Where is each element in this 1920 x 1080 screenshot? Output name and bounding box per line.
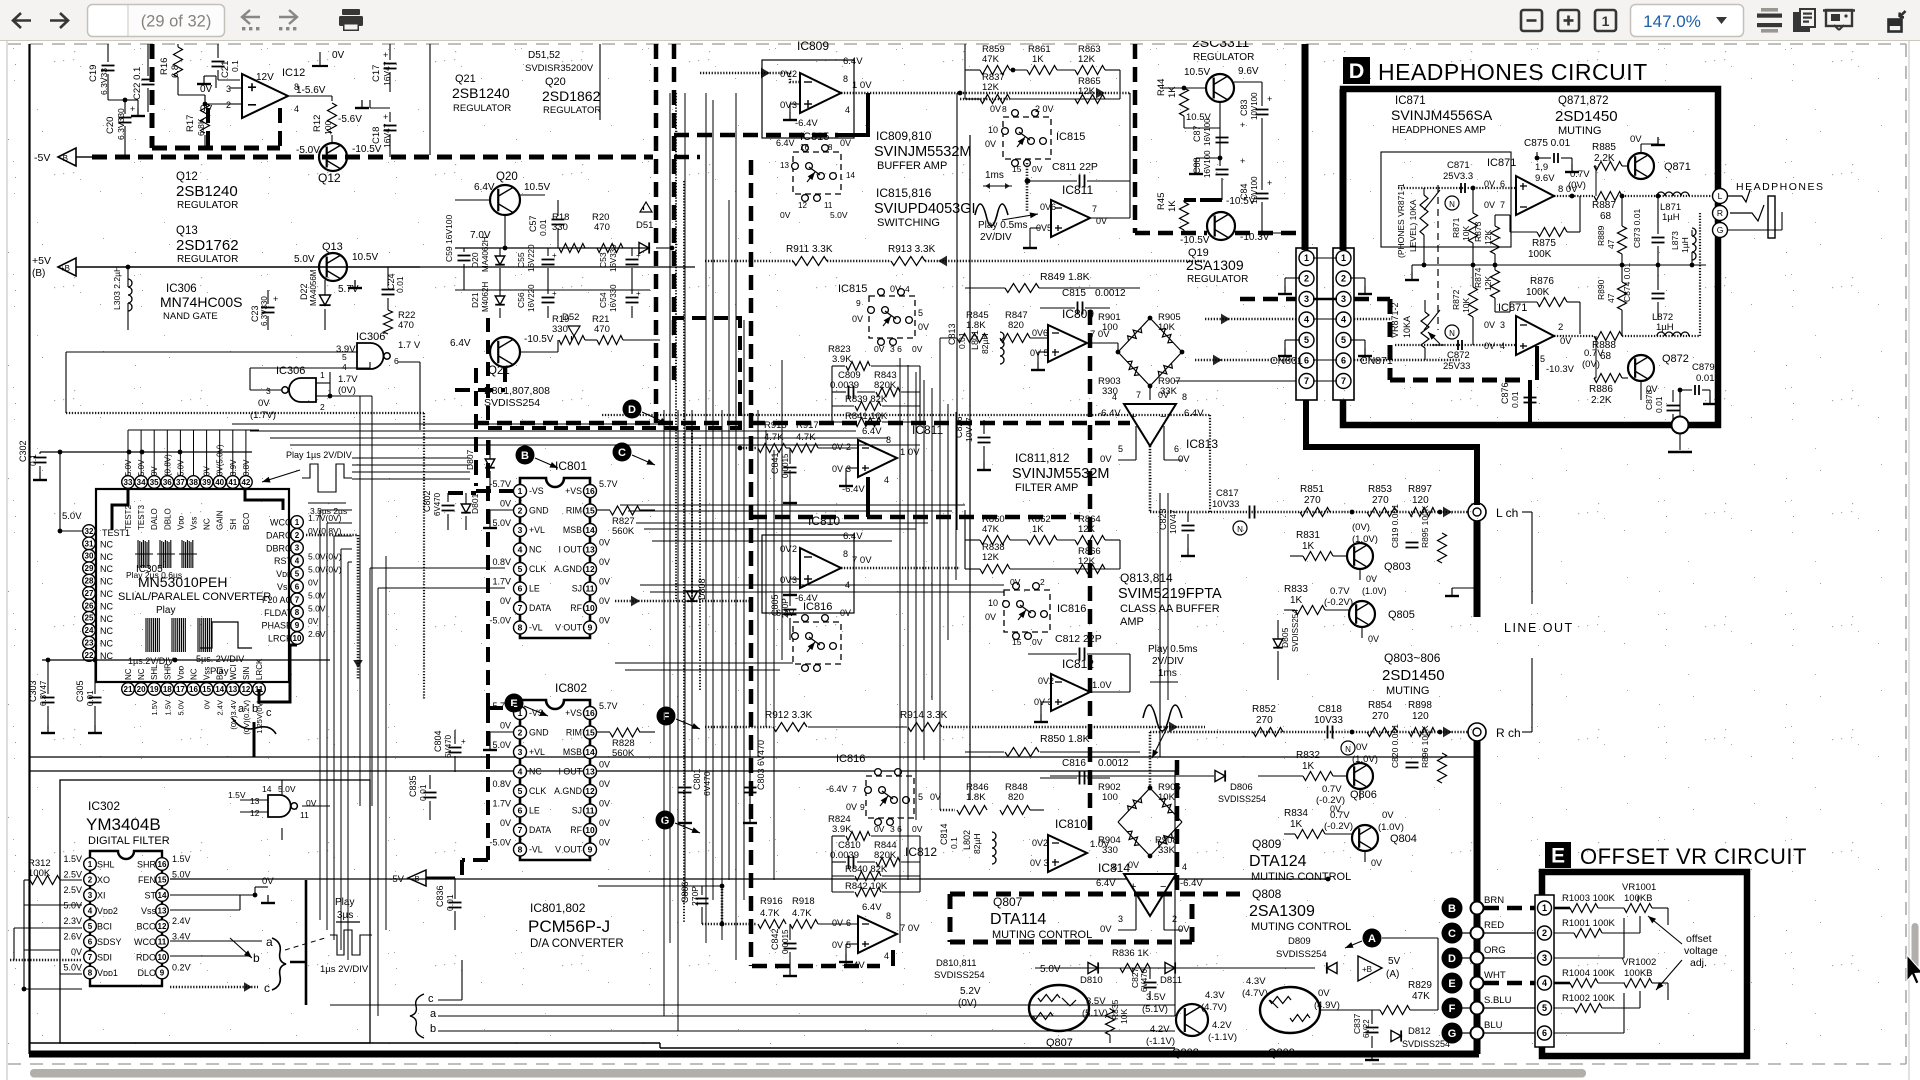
svg-text:28: 28 <box>85 576 94 585</box>
svg-text:12K: 12K <box>1078 54 1096 65</box>
IC811a ground <box>1030 227 1040 229</box>
svg-text:Q13: Q13 <box>176 225 198 237</box>
svg-text:D20: D20 <box>470 252 480 268</box>
ground top 0V <box>319 52 321 66</box>
thick dashed rail to IC802 <box>486 440 490 708</box>
svg-text:Vss: Vss <box>277 582 293 592</box>
svg-text:SH: SH <box>229 519 238 530</box>
transistor Q19 <box>1207 212 1235 240</box>
svg-text:R834: R834 <box>1284 808 1308 819</box>
svg-text:SJ: SJ <box>572 584 582 594</box>
svg-text:16: 16 <box>189 685 198 694</box>
hatched audio line y261 <box>705 260 793 263</box>
svg-text:26: 26 <box>85 601 94 610</box>
IC809 output hatched wire <box>841 92 1130 95</box>
svg-text:0.7V: 0.7V <box>1330 586 1350 597</box>
svg-text:3: 3 <box>1500 320 1505 330</box>
capacitor C21 0.1 <box>212 61 225 63</box>
potentiometer VR871-2 <box>1421 312 1429 348</box>
svg-text:560K: 560K <box>612 748 635 759</box>
long vertical wires in hp box <box>1595 166 1597 196</box>
svg-text:D811: D811 <box>1160 975 1182 986</box>
wire DLO c <box>170 986 258 989</box>
svg-text:RF: RF <box>570 825 582 835</box>
svg-text:REGULATOR: REGULATOR <box>1193 52 1254 63</box>
svg-text:22: 22 <box>85 651 94 660</box>
svg-text:BCI: BCI <box>97 922 112 932</box>
wires between connector pins <box>1313 257 1337 259</box>
transistor Q806 <box>1347 763 1373 789</box>
svg-text:8: 8 <box>886 911 891 921</box>
switch IC815 block D lower <box>869 296 915 338</box>
svg-text:7: 7 <box>1304 376 1309 386</box>
IC802 resistor R82x 560K <box>610 728 640 737</box>
ground C837 <box>1371 1052 1373 1060</box>
svg-text:100K: 100K <box>28 868 51 879</box>
svg-text:11: 11 <box>158 937 167 946</box>
svg-text:2: 2 <box>1304 274 1309 284</box>
svg-text:0.7V: 0.7V <box>1322 784 1342 795</box>
transistor Q20 <box>490 185 520 215</box>
svg-text:0V: 0V <box>1158 390 1169 400</box>
svg-text:12: 12 <box>241 685 250 694</box>
svg-text:C305: C305 <box>75 680 85 702</box>
svg-text:9.6V: 9.6V <box>1238 66 1259 77</box>
svg-text:6.8K: 6.8K <box>196 118 206 136</box>
svg-text:0V: 0V <box>832 464 843 474</box>
svg-text:3: 3 <box>792 575 797 585</box>
svg-text:0V: 0V <box>832 940 843 950</box>
svg-text:0.2V: 0.2V <box>172 963 191 973</box>
svg-text:D807: D807 <box>465 449 475 470</box>
svg-text:24: 24 <box>85 626 94 635</box>
heavy dashed bus through pin3 <box>1240 297 1296 302</box>
svg-text:6: 6 <box>518 584 523 594</box>
IC809 minus feed <box>838 93 868 135</box>
svg-text:7: 7 <box>88 953 93 962</box>
svg-text:VR871-2: VR871-2 <box>1390 302 1400 338</box>
svg-text:N: N <box>1449 329 1455 338</box>
svg-text:8: 8 <box>518 845 523 855</box>
svg-text:0V: 0V <box>852 314 863 324</box>
page dashed border bottom <box>8 1063 1906 1065</box>
svg-text:2: 2 <box>792 544 797 554</box>
svg-text:13: 13 <box>585 545 595 555</box>
svg-text:5.0V: 5.0V <box>172 870 191 880</box>
svg-text:-VL: -VL <box>529 623 543 633</box>
wire Q872 emitter down <box>1640 381 1642 400</box>
svg-text:SHL: SHL <box>150 664 159 680</box>
svg-text:100KB: 100KB <box>1624 968 1653 979</box>
svg-text:NAND GATE: NAND GATE <box>163 311 218 322</box>
svg-text:2SB1240: 2SB1240 <box>176 183 238 200</box>
svg-text:C835: C835 <box>408 775 418 797</box>
svg-text:Vss: Vss <box>190 517 199 530</box>
svg-text:40: 40 <box>215 478 224 487</box>
svg-text:TEST2: TEST2 <box>124 505 133 530</box>
svg-text:R871: R871 <box>1451 217 1461 238</box>
svg-text:BCO: BCO <box>136 922 156 932</box>
svg-text:IC809,810: IC809,810 <box>876 129 932 143</box>
svg-text:CLASS AA BUFFER: CLASS AA BUFFER <box>1120 603 1220 615</box>
svg-text:IC811,812: IC811,812 <box>1015 451 1070 465</box>
wire bundle horizontal upper <box>620 504 965 506</box>
svg-text:R1004 100K: R1004 100K <box>1562 968 1615 979</box>
svg-text:2.2K: 2.2K <box>1591 395 1612 406</box>
svg-text:12: 12 <box>798 201 807 210</box>
switch IC815 block A <box>793 152 841 194</box>
svg-text:0V: 0V <box>1366 574 1377 584</box>
IC812a output wire <box>1090 691 1130 693</box>
connector CN801 strip <box>1296 248 1317 400</box>
svg-text:R842 10K: R842 10K <box>845 881 888 892</box>
svg-text:33K: 33K <box>1158 845 1176 856</box>
svg-text:30: 30 <box>85 552 94 561</box>
history back arrow <box>242 10 260 24</box>
svg-text:C54: C54 <box>598 292 608 308</box>
heavy dashed vertical x1090 <box>1088 310 1093 830</box>
svg-text:270: 270 <box>1372 495 1389 506</box>
hatched line into IC871a plus <box>1398 187 1516 189</box>
svg-text:NC: NC <box>529 545 542 555</box>
svg-text:12: 12 <box>585 564 595 574</box>
marker B connector row <box>1442 898 1463 919</box>
brace right of IC302 pins <box>272 938 286 990</box>
svg-text:R897: R897 <box>1408 484 1432 495</box>
svg-text:C873 0.01: C873 0.01 <box>1632 209 1642 248</box>
svg-text:Play: Play <box>210 666 229 677</box>
svg-text:7: 7 <box>852 784 857 794</box>
page dashed border top <box>8 43 1906 45</box>
svg-text:6.4V: 6.4V <box>1096 878 1116 889</box>
svg-text:N: N <box>1345 745 1351 754</box>
svg-text:SWITCHING: SWITCHING <box>877 217 940 229</box>
svg-text:R852: R852 <box>1252 704 1276 715</box>
svg-text:6: 6 <box>394 356 399 366</box>
transistor Q12 <box>319 143 347 171</box>
svg-text:1,9: 1,9 <box>1535 162 1548 173</box>
circled N marker R <box>1341 741 1355 755</box>
svg-text:FILTER AMP: FILTER AMP <box>1015 482 1078 494</box>
svg-text:IC306: IC306 <box>356 331 385 343</box>
svg-text:820: 820 <box>1008 792 1024 803</box>
svg-text:6: 6 <box>518 806 523 816</box>
svg-text:5.7V: 5.7V <box>599 479 618 489</box>
svg-text:82µH: 82µH <box>972 834 982 855</box>
svg-text:3: 3 <box>266 386 271 396</box>
page number entry <box>88 5 225 37</box>
svg-text:2.6V: 2.6V <box>308 629 326 639</box>
svg-text:C836: C836 <box>435 885 445 907</box>
svg-text:R849 1.8K: R849 1.8K <box>1040 271 1090 283</box>
page dashed border right <box>1905 44 1907 1064</box>
capacitor C802 6V470 <box>442 505 455 507</box>
svg-text:L873: L873 <box>1670 231 1680 250</box>
thick stub IC811b pin4 to bus <box>866 477 870 517</box>
svg-text:C811 22P: C811 22P <box>1052 161 1098 173</box>
op-amp IC12 <box>242 74 288 118</box>
svg-text:D22: D22 <box>299 283 309 300</box>
long dashed bus D row <box>474 421 1130 426</box>
svg-text:10.5V: 10.5V <box>1184 67 1210 78</box>
svg-text:IC815: IC815 <box>800 131 829 143</box>
svg-text:(1.0V): (1.0V) <box>1362 586 1387 596</box>
hatched line pin6 <box>1195 359 1296 362</box>
svg-text:+B: +B <box>1362 965 1372 974</box>
svg-text:VR1002: VR1002 <box>1622 957 1656 968</box>
svg-text:Vss: Vss <box>141 906 157 916</box>
svg-text:D806: D806 <box>1230 782 1253 793</box>
svg-text:N: N <box>1449 200 1455 209</box>
svg-text:0V: 0V <box>1318 988 1330 999</box>
horizontal feeds to IC801 <box>370 567 505 569</box>
svg-text:C: C <box>618 447 626 459</box>
capacitor C835 0.01 <box>424 792 437 794</box>
svg-text:-VL: -VL <box>529 845 543 855</box>
svg-text:0V: 0V <box>1356 742 1368 753</box>
svg-text:Q808: Q808 <box>1172 1047 1199 1059</box>
svg-text:R918: R918 <box>792 896 815 907</box>
svg-text:16: 16 <box>800 143 809 152</box>
svg-text:0V: 0V <box>500 721 511 731</box>
svg-text:(4.7V): (4.7V) <box>1242 988 1268 999</box>
svg-text:V OUT: V OUT <box>555 623 583 633</box>
svg-text:6V470: 6V470 <box>1140 968 1149 992</box>
svg-text:SVDISS254: SVDISS254 <box>1291 609 1300 652</box>
ground C88 junction <box>1196 157 1220 159</box>
svg-text:13: 13 <box>228 685 237 694</box>
svg-text:L: L <box>1718 191 1723 201</box>
svg-text:IC801,802: IC801,802 <box>530 901 586 915</box>
svg-text:R1003 100K: R1003 100K <box>1562 893 1615 904</box>
svg-text:13: 13 <box>250 796 260 806</box>
svg-text:R44: R44 <box>1156 79 1167 96</box>
svg-text:+: + <box>383 50 388 60</box>
svg-text:D51: D51 <box>636 220 653 231</box>
svg-text:270: 270 <box>1372 711 1389 722</box>
svg-text:1K: 1K <box>1167 200 1178 212</box>
svg-text:0V: 0V <box>780 69 792 80</box>
svg-text:HEADPHONES AMP: HEADPHONES AMP <box>1392 125 1486 136</box>
svg-text:NC: NC <box>100 589 113 599</box>
svg-text:4: 4 <box>518 545 523 555</box>
heavy dashed bus muting row <box>950 940 1192 945</box>
svg-text:R840 82K: R840 82K <box>845 864 888 875</box>
svg-text:R885: R885 <box>1592 142 1616 153</box>
svg-text:5: 5 <box>342 352 347 362</box>
wire ST 0V ground <box>170 894 255 896</box>
svg-text:5: 5 <box>1118 444 1123 454</box>
svg-text:0V: 0V <box>890 284 901 294</box>
svg-text:6: 6 <box>846 918 851 928</box>
inductor L303 2.2uH <box>128 279 132 311</box>
IC810a ground <box>790 578 800 580</box>
svg-text:LEVEL) 10KA: LEVEL) 10KA <box>1408 199 1418 252</box>
diode D808 <box>686 591 697 601</box>
svg-text:IC810: IC810 <box>1055 817 1087 831</box>
svg-text:4: 4 <box>1182 862 1187 872</box>
resistor R888 68 <box>1594 332 1622 341</box>
mid rail wire <box>1424 264 1706 266</box>
svg-text:0V: 0V <box>599 616 610 626</box>
svg-text:5: 5 <box>1542 1003 1547 1013</box>
svg-text:C53: C53 <box>598 252 608 268</box>
svg-text:1: 1 <box>1341 253 1346 263</box>
dashed stub C802 to rail <box>448 491 476 495</box>
svg-text:100K: 100K <box>1528 249 1552 260</box>
capacitor C842 0.0015 <box>784 943 797 945</box>
svg-text:+VL: +VL <box>529 525 545 535</box>
svg-text:NC: NC <box>100 577 113 587</box>
svg-text:-10.5V: -10.5V <box>1226 196 1256 207</box>
svg-text:8: 8 <box>518 623 523 633</box>
svg-text:0V: 0V <box>262 876 274 887</box>
svg-text:1µH: 1µH <box>1656 322 1674 333</box>
svg-text:20: 20 <box>137 685 146 694</box>
svg-text:12K: 12K <box>982 82 1000 93</box>
marker G <box>656 811 675 830</box>
svg-text:270P: 270P <box>690 886 700 906</box>
transistor 2SC3311 <box>1206 74 1234 102</box>
svg-text:C19: C19 <box>88 65 99 82</box>
heavy line R ch down <box>1474 741 1481 1054</box>
heavy dashed bottom loop IC812 <box>752 964 880 969</box>
svg-text:2: 2 <box>88 875 93 884</box>
svg-text:3 6: 3 6 <box>890 344 902 354</box>
wire lrck bottom thick <box>259 645 297 702</box>
svg-text:6V470: 6V470 <box>702 771 712 796</box>
svg-text:36: 36 <box>163 478 172 487</box>
svg-text:11: 11 <box>300 810 309 820</box>
svg-text:-5V: -5V <box>34 152 50 164</box>
svg-text:5.7V: 5.7V <box>599 701 618 711</box>
capacitor C837 6V22 <box>1366 1027 1379 1029</box>
svg-text:5: 5 <box>1304 335 1309 345</box>
IC812b ground <box>846 943 858 945</box>
wire nand b output to left loop <box>250 389 282 391</box>
svg-text:C56: C56 <box>516 292 526 308</box>
svg-text:IC306: IC306 <box>276 365 305 377</box>
svg-text:330: 330 <box>1102 845 1118 856</box>
svg-text:(1.7V): (1.7V) <box>250 410 276 421</box>
svg-text:C872: C872 <box>1447 350 1470 361</box>
svg-text:25V3.3: 25V3.3 <box>1443 171 1473 182</box>
svg-text:6: 6 <box>1174 444 1179 454</box>
svg-text:Q806: Q806 <box>1350 789 1377 801</box>
svg-text:D/A CONVERTER: D/A CONVERTER <box>530 938 624 950</box>
svg-text:0V6: 0V6 <box>1040 202 1056 212</box>
svg-text:MUTING CONTROL: MUTING CONTROL <box>1251 871 1351 883</box>
svg-text:2SD1862: 2SD1862 <box>542 88 601 104</box>
svg-text:SVIUPD4053GI: SVIUPD4053GI <box>874 201 976 217</box>
wire bundle horizontal mid left <box>232 423 664 425</box>
svg-text:10: 10 <box>988 598 998 608</box>
svg-text:-5.6V: -5.6V <box>338 114 362 125</box>
svg-text:SIN: SIN <box>242 666 251 680</box>
svg-text:16: 16 <box>585 486 595 496</box>
svg-text:XI: XI <box>97 891 106 901</box>
svg-text:6V22: 6V22 <box>1362 1019 1371 1038</box>
svg-text:IC813: IC813 <box>1186 437 1218 451</box>
svg-text:15: 15 <box>158 875 167 884</box>
svg-text:2: 2 <box>518 728 523 738</box>
svg-text:5.0V: 5.0V <box>308 590 326 600</box>
svg-text:0V 3: 0V 3 <box>1030 858 1049 868</box>
svg-text:G: G <box>1717 225 1724 235</box>
svg-text:5: 5 <box>518 564 523 574</box>
svg-text:16: 16 <box>158 860 167 869</box>
heavy line L ch down segment <box>1474 521 1481 617</box>
svg-text:Q12: Q12 <box>176 171 198 183</box>
hatched wire DARO <box>306 534 358 537</box>
svg-text:+: + <box>552 251 557 260</box>
nand gate IC306 b mirrored <box>289 378 316 402</box>
svg-text:D810: D810 <box>1080 975 1103 986</box>
svg-text:0V 5: 0V 5 <box>1030 348 1049 358</box>
svg-text:15: 15 <box>585 728 595 738</box>
IC814 pin wires <box>1135 896 1137 930</box>
svg-text:A.GND: A.GND <box>554 564 582 574</box>
heavy dashed vertical x656 <box>654 44 659 423</box>
svg-text:2: 2 <box>1341 274 1346 284</box>
ground mid rail left <box>1412 264 1424 266</box>
forward arrow button <box>50 13 68 28</box>
svg-text:1.7V: 1.7V <box>338 374 358 385</box>
svg-text:Q804: Q804 <box>1390 833 1417 845</box>
svg-text:100: 100 <box>323 121 333 135</box>
capacitor C19 6.3V330 <box>102 65 115 67</box>
svg-text:Play 1µs 2V/DIV: Play 1µs 2V/DIV <box>286 450 352 460</box>
IC802 body <box>520 700 590 860</box>
svg-text:REGULATOR: REGULATOR <box>177 200 238 211</box>
resistor R835 10K <box>1106 1009 1115 1035</box>
svg-text:9.6V: 9.6V <box>1535 173 1555 184</box>
svg-text:ORG: ORG <box>1484 945 1506 956</box>
svg-text:Play: Play <box>156 605 175 616</box>
svg-text:0.01: 0.01 <box>1696 373 1715 384</box>
svg-text:2: 2 <box>792 69 797 79</box>
svg-text:0V: 0V <box>200 84 213 95</box>
svg-text:0V2: 0V2 <box>1032 838 1048 848</box>
svg-text:NC: NC <box>100 539 113 549</box>
svg-text:R889: R889 <box>1596 225 1606 246</box>
svg-text:PCM56P-J: PCM56P-J <box>528 917 610 936</box>
capacitor C18 16V47 <box>384 125 397 127</box>
svg-text:REGULATOR: REGULATOR <box>453 103 511 114</box>
svg-text:1.7V: 1.7V <box>492 799 511 809</box>
svg-text:3: 3 <box>1542 953 1547 963</box>
hatched vertical from sw to opamp <box>1026 163 1029 212</box>
svg-text:NC: NC <box>100 564 113 574</box>
wire op-amp output <box>288 95 332 97</box>
svg-text:0.01: 0.01 <box>957 332 967 349</box>
svg-text:0V: 0V <box>1368 634 1379 644</box>
svg-text:R898: R898 <box>1408 700 1432 711</box>
capacitor C20 6.3V330 <box>119 117 132 119</box>
svg-text:0V: 0V <box>832 918 843 928</box>
diode D806 <box>1215 770 1225 781</box>
svg-text:1: 1 <box>1602 13 1610 29</box>
svg-text:SVINJM5532M: SVINJM5532M <box>1012 466 1110 482</box>
svg-text:10: 10 <box>585 603 595 613</box>
svg-text:0V: 0V <box>1100 454 1112 465</box>
svg-text:WCO: WCO <box>134 937 156 947</box>
svg-text:1µH: 1µH <box>1662 212 1680 223</box>
svg-text:9: 9 <box>588 623 593 633</box>
svg-text:6: 6 <box>1542 1028 1547 1038</box>
svg-text:2.5V: 2.5V <box>63 870 82 880</box>
svg-text:REGULATOR: REGULATOR <box>177 254 238 265</box>
